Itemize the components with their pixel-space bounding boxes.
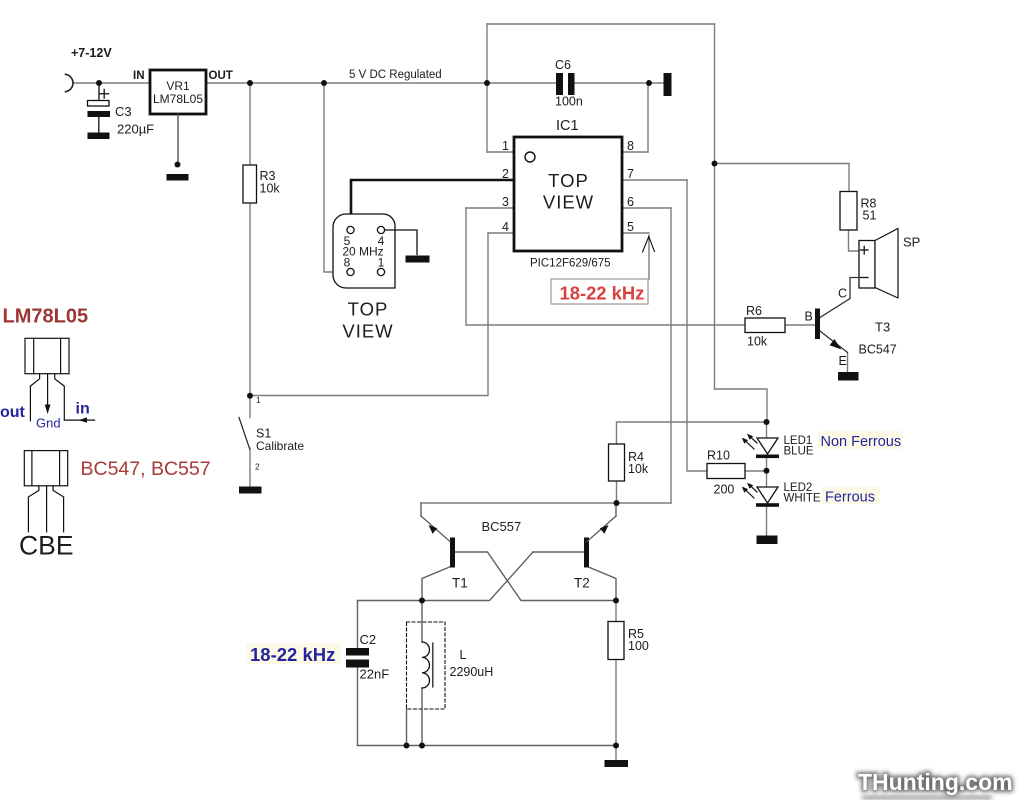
svg-text:10k: 10k: [260, 182, 281, 196]
wire C6 junction to IC pin8: [647, 83, 649, 152]
node rail resonator: [321, 80, 327, 86]
svg-text:T2: T2: [574, 576, 590, 591]
wire L shield drop: [406, 709, 408, 746]
svg-text:R10: R10: [707, 449, 730, 463]
svg-text:LM78L05: LM78L05: [3, 306, 89, 328]
ground VR1: [167, 174, 189, 181]
svg-text:2: 2: [255, 462, 260, 472]
capacitor C3: [88, 83, 111, 133]
wire T2 emitter drop: [615, 503, 617, 516]
resistor R6: [745, 318, 785, 333]
svg-text:VR1: VR1: [166, 79, 190, 93]
capacitor C6 plates: [556, 73, 575, 95]
node C6 pin8: [646, 80, 652, 86]
wire LED1 anode: [766, 422, 768, 438]
wire R5 bottom to ground: [615, 660, 617, 761]
svg-text:2290uH: 2290uH: [450, 665, 494, 679]
svg-text:200: 200: [714, 483, 735, 497]
ground C3: [88, 133, 110, 140]
wire R8 top stub: [848, 164, 850, 192]
node T1 collector tank: [419, 598, 425, 604]
T3 emitter lead: [820, 331, 848, 353]
svg-text:in: in: [76, 401, 90, 418]
svg-text:LM78L05: LM78L05: [153, 92, 203, 106]
wire LED2 cathode to ground: [766, 506, 768, 536]
svg-text:VIEW: VIEW: [543, 192, 594, 213]
wire pin8 stub: [622, 151, 648, 153]
transistor Q T2 bar: [584, 538, 589, 568]
resonator pin 1: [377, 268, 384, 275]
wire rail to resonator pin8: [324, 83, 347, 272]
wire R8 to speaker plus: [849, 230, 860, 251]
pin1 indicator circle: [525, 152, 535, 162]
wire tank bottom y745: [358, 745, 617, 747]
svg-text:E: E: [839, 354, 847, 368]
svg-text:C2: C2: [360, 632, 377, 647]
svg-text:5: 5: [627, 220, 634, 234]
svg-text:BC557: BC557: [482, 519, 522, 534]
svg-text:100: 100: [628, 639, 649, 653]
speaker plus mark: [861, 246, 869, 254]
wire R10 right to LED node: [745, 470, 767, 472]
svg-text:TOP: TOP: [548, 170, 589, 191]
wire pin6 stub: [622, 207, 671, 209]
svg-text:CBE: CBE: [19, 531, 74, 561]
transistor Q T3 bar: [815, 309, 820, 340]
svg-text:Non Ferrous: Non Ferrous: [821, 434, 902, 450]
svg-text:1: 1: [378, 256, 385, 270]
svg-text:SP: SP: [903, 235, 920, 250]
arrow at IC pin5: [643, 235, 655, 279]
wire pin2 thick to resonator: [351, 180, 514, 227]
switch S1: [239, 418, 250, 450]
svg-text:T3: T3: [875, 320, 890, 335]
connector J1 power jack: [66, 74, 73, 91]
transistor Q T1 bar: [450, 538, 455, 568]
resistor R8: [840, 192, 857, 231]
wire loop step to LED column: [715, 389, 768, 422]
svg-text:OUT: OUT: [209, 70, 233, 82]
TO92 LM78L05 leads: [30, 374, 39, 421]
terminal bar right of C6: [664, 73, 672, 96]
inductor L coil: [422, 642, 430, 688]
svg-text:BC547, BC557: BC547, BC557: [81, 458, 211, 480]
wire T1 base cross diagonal: [488, 552, 617, 601]
svg-text:Ferrous: Ferrous: [825, 490, 875, 506]
TO92 BC547 leads: [28, 486, 39, 532]
svg-text:PIC12F629/675: PIC12F629/675: [530, 258, 611, 270]
LED2 symbol: [756, 487, 779, 507]
resonator pin 8: [347, 268, 354, 275]
wire R6 to T3 base: [785, 324, 815, 326]
resistor R10: [707, 464, 745, 479]
svg-text:out: out: [0, 404, 26, 421]
wire VR1 gnd: [177, 114, 179, 165]
T2 emitter arrowhead: [600, 525, 609, 534]
svg-text:100n: 100n: [555, 95, 583, 109]
wire node A vertical x487 top loop: [486, 24, 488, 152]
inductor L core line: [432, 643, 434, 687]
svg-text:10k: 10k: [747, 335, 768, 349]
wire L top feed: [421, 601, 423, 643]
svg-text:8: 8: [627, 139, 634, 153]
capacitor C2 plates: [346, 648, 369, 668]
wire T1 base stub: [455, 551, 488, 553]
svg-text:51: 51: [863, 209, 877, 223]
wire pin6 net to emitter rail: [670, 208, 672, 503]
wire R8 branch horizontal y163: [715, 163, 850, 165]
T3 emitter arrowhead: [830, 339, 842, 349]
LED1 light arrows: [742, 434, 757, 449]
wire T1 collector drop: [422, 566, 452, 601]
wire R5 top: [615, 601, 617, 622]
resistor R3: [243, 165, 257, 203]
ground R5: [605, 760, 629, 767]
ground LED chain: [757, 536, 778, 545]
ground T3: [838, 372, 859, 381]
svg-text:C3: C3: [115, 104, 132, 119]
node emitters R4: [614, 500, 620, 506]
highlight pale backgrounds: [246, 431, 903, 664]
svg-text:TOP: TOP: [348, 299, 389, 320]
svg-text:L: L: [460, 648, 467, 662]
wire LED1 cathode to LED2: [766, 458, 768, 487]
regulator VR1 box: [150, 70, 206, 114]
node R8 branch: [712, 161, 718, 167]
wire C2 branch left: [357, 601, 359, 649]
svg-text:4: 4: [502, 220, 509, 234]
svg-text:THunting.com: THunting.com: [858, 769, 1013, 795]
wire pin5 stub: [622, 232, 649, 234]
wire T2 base cross diagonal: [422, 552, 533, 601]
speaker SP body: [859, 241, 875, 289]
node T2 collector R5: [613, 598, 619, 604]
WIRES_GRAY: [74, 24, 859, 760]
wire resonator pin4 to ground: [385, 230, 418, 255]
speaker minus mark: [861, 277, 869, 279]
resistor R4: [609, 444, 625, 481]
node LED1 LED2 R10: [764, 468, 770, 474]
svg-text:3: 3: [502, 195, 509, 209]
arrow Gnd pin: [45, 405, 51, 415]
wire pin4 net to S1 node: [250, 233, 488, 396]
ground S1: [239, 487, 262, 494]
wire R4 top feed y422: [617, 422, 767, 444]
svg-text:C: C: [838, 287, 847, 301]
wire T1 emitter drop: [420, 503, 422, 516]
wire emitter rail y503: [421, 502, 671, 504]
speaker SP cone: [875, 229, 898, 299]
wire speaker minus to T3 collector: [820, 278, 859, 318]
wire R4 bottom: [616, 481, 618, 503]
resonator pin 5: [347, 226, 354, 233]
wire pin1 stub from x487: [487, 151, 514, 153]
node LED1 anode: [764, 419, 770, 425]
wire pin7 net to R10: [687, 180, 707, 471]
svg-text:+7-12V: +7-12V: [71, 46, 112, 60]
IC U1 PIC12F629 box: [514, 137, 622, 251]
svg-text:VIEW: VIEW: [342, 321, 393, 342]
svg-text:6: 6: [627, 195, 634, 209]
svg-text:IN: IN: [133, 70, 145, 82]
svg-text:Gnd: Gnd: [36, 416, 61, 431]
node input C3: [96, 80, 102, 86]
node VR1 gnd: [175, 162, 181, 168]
svg-text:18-22 kHz: 18-22 kHz: [250, 644, 335, 665]
wire C6 right to terminal bar: [575, 82, 664, 84]
box 18-22 kHz callout: [551, 279, 648, 304]
wire right loop vertical x714: [714, 24, 716, 389]
svg-text:5 V DC Regulated: 5 V DC Regulated: [349, 69, 442, 81]
wire pin4 stub: [488, 232, 514, 234]
wire T2 base stub: [533, 551, 584, 553]
watermark THunting.com: [858, 769, 1013, 800]
svg-text:10k: 10k: [628, 462, 649, 476]
wire pin3 stub: [466, 207, 514, 209]
wire tank top y600: [358, 600, 423, 602]
svg-text:T1: T1: [452, 576, 468, 591]
LED1 symbol: [756, 438, 779, 458]
wire C2 bottom drop: [357, 668, 359, 746]
svg-text:220µF: 220µF: [117, 122, 154, 137]
ground resonator: [406, 256, 430, 263]
node S1 top: [247, 393, 253, 399]
svg-text:18-22 kHz: 18-22 kHz: [560, 283, 645, 304]
T1 emitter lead: [421, 516, 450, 542]
node tank bottom R5: [613, 743, 619, 749]
T1 emitter arrowhead: [429, 525, 438, 534]
inductor L dashed box: [407, 622, 446, 709]
svg-text:B: B: [805, 310, 813, 324]
T2 emitter lead: [587, 516, 616, 542]
svg-text:C6: C6: [555, 58, 571, 72]
LED2 light arrows: [742, 483, 757, 498]
node rail R3: [247, 80, 253, 86]
wire +V input to VR1 IN: [74, 82, 150, 84]
wire pin7 stub: [622, 179, 687, 181]
wire R3 bottom to S1: [249, 203, 251, 418]
svg-text:BLUE: BLUE: [784, 446, 814, 458]
svg-text:WHITE: WHITE: [784, 493, 821, 505]
svg-text:8: 8: [344, 256, 351, 270]
svg-text:BC547: BC547: [859, 343, 897, 357]
arrow in pin: [79, 417, 88, 422]
wire pin3 net to R6: [466, 208, 745, 325]
TO92 package BC547 body: [24, 451, 67, 532]
resistor R5: [608, 622, 624, 660]
svg-text:1: 1: [502, 139, 509, 153]
svg-text:R6: R6: [746, 304, 762, 318]
wire S1 to ground: [249, 448, 251, 487]
wire top loop horizontal y24: [487, 23, 715, 25]
wire rail to R3 top: [249, 83, 251, 165]
svg-text:22nF: 22nF: [360, 667, 390, 682]
wire 5V rail VR1 OUT to C6: [206, 82, 556, 84]
wire T3 emitter to ground: [847, 353, 849, 373]
svg-text:Calibrate: Calibrate: [256, 439, 304, 453]
svg-text:7: 7: [627, 167, 634, 181]
node tank bottom shield: [404, 743, 410, 749]
node tank bottom L: [419, 743, 425, 749]
wire L bottom feed: [421, 688, 423, 746]
svg-text:1: 1: [256, 395, 261, 405]
wire T2 collector drop: [586, 566, 616, 601]
resonator pin 4: [377, 226, 384, 233]
node rail loop: [484, 80, 490, 86]
svg-text:IC1: IC1: [556, 118, 579, 134]
TO92 package LM78L05 body: [25, 338, 95, 421]
svg-text:2: 2: [502, 167, 509, 181]
resonator X1 outline: [333, 214, 395, 288]
